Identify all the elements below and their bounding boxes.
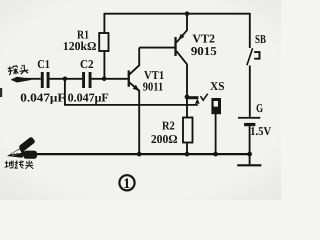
svg-text:C1: C1 [37, 57, 50, 71]
svg-text:9015: 9015 [191, 44, 217, 58]
svg-text:120kΩ: 120kΩ [63, 39, 97, 53]
svg-text:G: G [256, 101, 263, 115]
svg-text:XS: XS [210, 79, 225, 93]
svg-text:1.5V: 1.5V [250, 124, 271, 138]
svg-text:SB: SB [255, 32, 266, 46]
svg-text:200Ω: 200Ω [151, 132, 178, 146]
svg-text:C2: C2 [80, 57, 94, 71]
svg-text:9011: 9011 [143, 80, 163, 94]
svg-text:1: 1 [123, 176, 130, 192]
svg-text:R2: R2 [162, 118, 175, 132]
svg-text:0.047μF: 0.047μF [68, 90, 109, 104]
svg-text:0.047μF: 0.047μF [20, 90, 65, 104]
